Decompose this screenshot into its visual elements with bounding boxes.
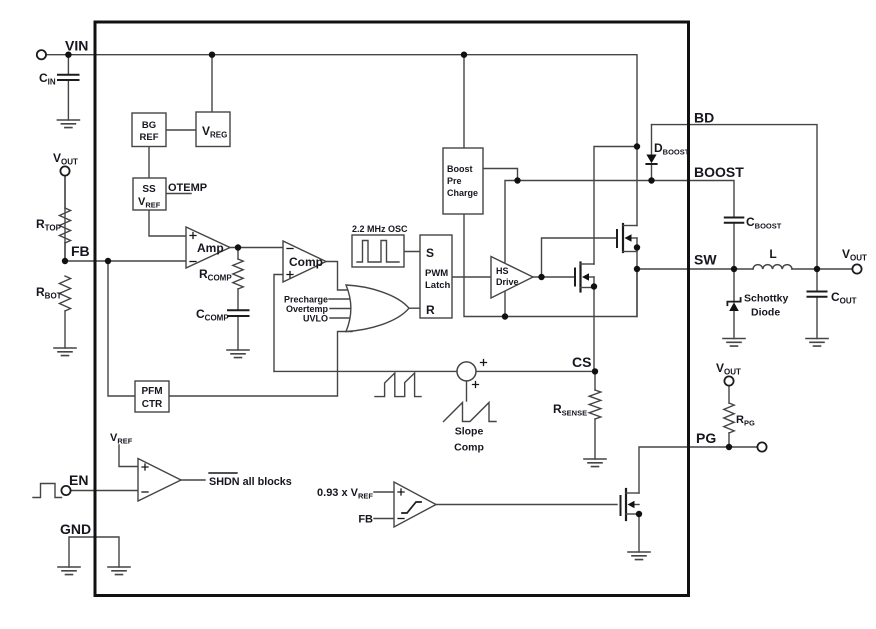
comparator EN — [138, 459, 181, 502]
wire RCOMP leads — [237, 248, 239, 310]
wire OTEMP stub — [166, 193, 191, 195]
wire OR input Overtemp — [330, 308, 352, 310]
svg-text:OTEMP: OTEMP — [168, 182, 207, 194]
svg-text:Schottky: Schottky — [744, 293, 789, 305]
comparator Comp — [283, 241, 326, 282]
svg-text:SW: SW — [694, 252, 717, 268]
svg-text:R: R — [426, 303, 435, 317]
wire VREF to EN comparator — [119, 445, 138, 467]
svg-text:REF: REF — [140, 132, 159, 143]
wire EN input — [71, 490, 138, 492]
svg-text:Diode: Diode — [751, 307, 780, 319]
wire BG REF to VREG — [166, 129, 196, 131]
ground for CIN — [57, 120, 79, 128]
svg-text:CTR: CTR — [142, 399, 163, 410]
box Boost Pre Charge — [443, 148, 483, 214]
ground internal GND — [108, 567, 130, 575]
wire FB net — [65, 176, 186, 261]
junction CIN node — [65, 52, 71, 58]
wire OR input UVLO — [330, 317, 352, 319]
wire L to VOUT terminal — [792, 268, 852, 270]
svg-text:Amp: Amp — [197, 241, 224, 255]
junction HS Drive output node — [538, 274, 544, 280]
IC boundary border — [95, 22, 689, 596]
resistor RCOMP — [199, 259, 243, 289]
wire OR gate output to latch R — [409, 307, 420, 309]
svg-text:FB: FB — [71, 243, 90, 259]
wire M1 source to SW rail — [636, 238, 638, 317]
OR gate — [346, 285, 409, 332]
junction SW node — [634, 266, 640, 272]
junction COUT on VOUT — [814, 266, 820, 272]
svg-text:Comp: Comp — [289, 255, 323, 269]
svg-text:S: S — [426, 246, 434, 260]
wire VOUT divider top lead — [64, 243, 66, 261]
wire M2 source to CS — [593, 277, 595, 371]
wire CIN — [67, 55, 69, 120]
ground for RBOT — [54, 348, 76, 356]
svg-text:2.2 MHz OSC: 2.2 MHz OSC — [352, 224, 408, 234]
capacitor CBOOST — [725, 215, 782, 231]
junction Boost Pre Charge on BOOST net — [514, 177, 520, 183]
svg-text:CS: CS — [572, 354, 591, 370]
junction M3 source node — [636, 511, 642, 517]
wire GND pin — [69, 537, 119, 567]
svg-text:Drive: Drive — [496, 277, 519, 287]
wire gate drive M1 — [542, 238, 618, 277]
junction FB internal node — [105, 258, 111, 264]
amplifier HS Drive — [491, 257, 533, 299]
wire RPG leads — [728, 386, 730, 447]
junction HS bottom on SW rail — [502, 313, 508, 319]
resistor RSENSE — [553, 390, 601, 419]
wire branch to M2 drain — [594, 147, 637, 265]
svg-text:Boost: Boost — [447, 164, 473, 174]
wire CCOMP to ground — [237, 316, 239, 350]
ground for COUT — [806, 339, 828, 347]
wire BG REF to SS VREF — [148, 147, 150, 179]
diode schottky — [727, 293, 788, 319]
wire RSENSE leads — [594, 371, 596, 459]
junction VREG branch node — [209, 52, 215, 58]
summing node slope comp — [457, 360, 487, 388]
junction M2 drain branch node — [634, 143, 640, 149]
transistor M3 power good — [621, 489, 640, 520]
comparator PG — [394, 482, 436, 527]
wire BD net — [652, 125, 818, 269]
svg-text:L: L — [769, 247, 776, 261]
svg-text:Precharge: Precharge — [284, 295, 328, 305]
wire Comp output to OR input — [326, 262, 352, 291]
ground for schottky — [723, 339, 745, 347]
wire PWM latch output — [452, 276, 491, 278]
ground for RSENSE — [584, 459, 606, 467]
waveform EN pulse — [33, 484, 62, 498]
svg-text:PFM: PFM — [141, 386, 162, 397]
box PWM latch — [420, 235, 452, 318]
junction M1 source node — [634, 244, 640, 250]
svg-text:SS: SS — [142, 184, 156, 195]
resistor RBOT — [36, 276, 71, 311]
svg-text:PWM: PWM — [425, 268, 448, 279]
svg-text:Pre: Pre — [447, 176, 462, 186]
wire VOUT pullup lead — [64, 176, 66, 208]
wire CS line — [274, 370, 595, 372]
svg-text:BG: BG — [142, 120, 156, 131]
box PFM CTR — [135, 381, 169, 412]
wire summing node stem — [466, 381, 468, 401]
junction M2 source node — [591, 283, 597, 289]
wire SHDN output — [181, 479, 205, 481]
wire VIN branch to VREG — [211, 55, 213, 112]
junction FB node — [62, 258, 68, 264]
resistor RTOP — [36, 208, 71, 243]
wire HS Drive output to M2 gate — [533, 276, 575, 278]
wire SS VREF to Amp plus input — [149, 210, 186, 236]
junction Amp output node — [235, 244, 241, 250]
svg-text:BOOST: BOOST — [694, 164, 744, 180]
svg-text:BD: BD — [694, 110, 714, 126]
box SS VREF — [133, 178, 166, 210]
wire Boost Pre Charge bottom to SW rail — [464, 214, 637, 317]
pin VIN — [37, 38, 89, 60]
wire PFM CTR to OR input — [169, 332, 352, 397]
junction RPG on PG net — [726, 444, 732, 450]
svg-text:EN: EN — [69, 472, 88, 488]
wire HS drive bottom to SW rail — [504, 292, 506, 317]
oscillator 2.2 MHz OSC — [352, 224, 408, 267]
ground for M3 — [628, 552, 650, 560]
wire M3 source to ground — [638, 514, 640, 552]
wire OSC to latch S — [404, 251, 420, 253]
pin VOUT external right — [842, 247, 867, 274]
pin PG terminal — [757, 442, 766, 451]
junction schottky on SW — [731, 266, 737, 272]
box VREG — [196, 112, 230, 147]
resistor RPG — [724, 403, 755, 433]
pin VOUT pullup — [716, 361, 741, 386]
svg-text:UVLO: UVLO — [303, 314, 328, 324]
box BG REF — [132, 113, 166, 147]
transistor M2 low-side switch — [575, 263, 594, 292]
pin EN — [61, 472, 88, 495]
wire PG comparator inputs — [374, 492, 394, 519]
svg-text:SHDN all blocks: SHDN all blocks — [209, 476, 292, 488]
wire VIN rail — [46, 55, 637, 226]
svg-text:VIN: VIN — [65, 38, 88, 54]
junction Boost Pre Charge branch node — [461, 52, 467, 58]
label Slope Comp — [454, 426, 484, 454]
svg-text:Charge: Charge — [447, 188, 478, 198]
label SHDN all blocks — [209, 473, 292, 488]
svg-text:Overtemp: Overtemp — [286, 304, 329, 314]
svg-text:FB: FB — [358, 514, 373, 526]
wire RBOT to ground — [64, 311, 66, 348]
ground external GND — [58, 567, 80, 575]
wire DBOOST anode lead — [651, 125, 653, 155]
wire M3 drain to PG net — [639, 447, 757, 493]
wire PG comparator output to M3 gate — [436, 504, 617, 506]
wire Comp plus input from CS line — [274, 275, 283, 372]
transistor M1 high-side switch — [617, 224, 637, 252]
waveform slope comp sawtooth — [444, 403, 497, 422]
wire SW net — [637, 268, 753, 270]
wire CBOOST to SW — [733, 223, 735, 269]
op-amp Amp — [186, 227, 230, 268]
wire BOOST net — [505, 181, 734, 264]
wire schottky to ground — [733, 269, 735, 339]
svg-text:PG: PG — [696, 430, 716, 446]
wire Boost Pre Charge output — [483, 169, 518, 181]
wire Amp output to Comp — [230, 247, 283, 249]
diode DBOOST — [646, 141, 689, 164]
junction CS node — [592, 368, 598, 374]
capacitor COUT — [808, 290, 857, 306]
junction DBOOST on BOOST net — [648, 177, 654, 183]
waveform CS sense — [375, 373, 421, 397]
wire COUT to ground — [816, 269, 818, 339]
capacitor CIN — [39, 71, 79, 87]
svg-text:Latch: Latch — [425, 280, 451, 291]
svg-text:Comp: Comp — [454, 442, 484, 454]
ground for CCOMP — [227, 350, 249, 358]
svg-text:Slope: Slope — [455, 426, 484, 438]
wire DBOOST cathode lead — [651, 165, 653, 181]
wire FB to PFM CTR — [108, 261, 135, 396]
inductor L — [753, 247, 792, 269]
capacitor CCOMP — [196, 307, 249, 323]
svg-text:HS: HS — [496, 266, 509, 276]
svg-text:GND: GND — [60, 521, 91, 537]
divider VOUT pin — [53, 151, 78, 176]
wire VIN branch to Boost Pre Charge — [463, 55, 465, 148]
wire OR input Precharge — [329, 298, 352, 300]
